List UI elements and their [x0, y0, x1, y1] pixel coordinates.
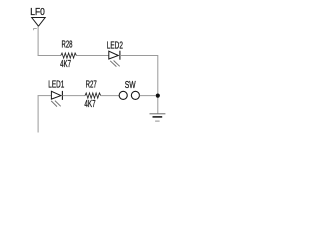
wire: LED2 to right corner and down	[120, 56, 158, 96]
junction dot	[156, 94, 160, 98]
wire: LED1 to R27	[62, 95, 85, 97]
svg-text:LED1: LED1	[48, 80, 64, 91]
svg-text:4K7: 4K7	[84, 99, 95, 110]
wire: LF0 down	[37, 26, 39, 55]
wire: left column down from LED1 row	[37, 96, 39, 133]
ground symbol	[150, 114, 166, 121]
svg-text:4K7: 4K7	[60, 59, 71, 70]
wire: corner to R28	[38, 55, 61, 57]
switch SW contact circles	[119, 91, 139, 99]
connector LF0 triangle	[32, 18, 46, 27]
pin tick near LF0 apex	[33, 29, 37, 31]
LED LED2	[109, 51, 120, 67]
svg-text:R28: R28	[62, 40, 73, 51]
svg-text:SW: SW	[125, 80, 136, 91]
LED LED1	[51, 91, 62, 107]
wire: R28 to LED2	[76, 55, 108, 57]
wire: left corner to LED1	[38, 95, 52, 97]
svg-text:R27: R27	[86, 80, 97, 91]
wire: junction down to ground	[157, 96, 159, 114]
resistor R28	[61, 53, 77, 58]
resistor R27	[85, 93, 101, 98]
svg-text:LED2: LED2	[107, 41, 123, 52]
wire: R27 to SW	[101, 95, 119, 97]
wire: SW to junction	[140, 95, 156, 97]
svg-text:LF0: LF0	[30, 7, 45, 18]
